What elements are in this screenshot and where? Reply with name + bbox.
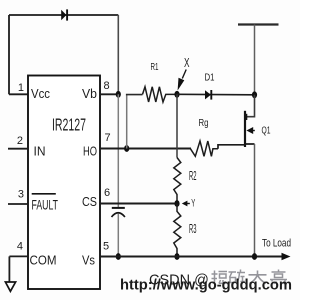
power bus top bar — [238, 23, 279, 25]
capacitor bootstrap curved plate — [112, 213, 125, 217]
wire drain rail upper — [254, 25, 256, 95]
resistor R1 — [143, 87, 178, 102]
svg-text:IR2127: IR2127 — [52, 115, 86, 135]
resistor Rg — [190, 141, 218, 156]
svg-text:Y: Y — [191, 198, 195, 210]
capacitor bootstrap top plate — [112, 207, 125, 209]
wire Vb rail to capacitor — [117, 94, 119, 207]
svg-text:R2: R2 — [189, 168, 197, 183]
node Q1 source junction — [252, 253, 257, 260]
svg-text:Vs: Vs — [82, 253, 95, 268]
wire pin1 stub — [9, 93, 28, 95]
transistor Q1 — [245, 111, 255, 147]
svg-text:5: 5 — [103, 241, 109, 253]
svg-text:HO: HO — [83, 144, 97, 159]
node X arrow — [178, 70, 187, 91]
watermark gray glyph 3 — [249, 271, 267, 284]
svg-text:FAULT: FAULT — [32, 197, 59, 213]
svg-text:1: 1 — [18, 82, 24, 94]
wire pin3 stub — [8, 203, 28, 205]
svg-text:3: 3 — [18, 189, 24, 201]
wire pin2 stub — [8, 148, 28, 150]
svg-text:8: 8 — [104, 80, 110, 92]
wire Vb rail upper — [117, 15, 119, 94]
wire pin4 stub — [9, 255, 28, 257]
svg-text:D1: D1 — [205, 73, 215, 84]
svg-text:7: 7 — [105, 132, 111, 144]
wire COM to ground — [8, 256, 10, 281]
watermark gray glyph 4 — [270, 270, 287, 284]
IC U1 IR2127 gate driver body — [28, 76, 100, 290]
node Vb junction — [116, 91, 121, 98]
resistor R3 — [174, 204, 181, 257]
svg-text:R3: R3 — [189, 221, 197, 236]
node Y arrow — [182, 201, 190, 207]
wire Q1 source to Vs line — [254, 144, 256, 257]
svg-text:X: X — [184, 55, 190, 70]
svg-text:IN: IN — [34, 144, 46, 159]
svg-text:To Load: To Load — [262, 238, 291, 250]
wire top Vcc-to-Vb bootstrap loop horizontal — [9, 14, 118, 16]
wire pin8 Vb stub — [100, 93, 118, 95]
wire pin7 HO to Rg — [100, 148, 191, 150]
wire X riser to R2 — [176, 94, 178, 157]
wire riser corner to R1 — [126, 94, 143, 96]
svg-text:Q1: Q1 — [262, 126, 271, 137]
svg-text:2: 2 — [17, 135, 23, 147]
svg-text:http://www.go-gddq.com: http://www.go-gddq.com — [120, 277, 292, 294]
wire drain rail to Q1 — [246, 95, 255, 117]
wire HO riser to R1 — [126, 95, 128, 149]
node Y — [174, 200, 179, 207]
wire left rail vertical — [8, 15, 10, 94]
svg-text:Rg: Rg — [199, 117, 209, 129]
diode D1 — [205, 90, 211, 100]
watermark gray glyph 1 — [212, 271, 228, 284]
svg-text:CS: CS — [82, 194, 97, 209]
wire capacitor to Vs line — [117, 214, 119, 257]
wire X to D1 to drain rail — [177, 93, 255, 96]
svg-text:COM: COM — [30, 253, 57, 268]
wire pin6 CS to node Y — [100, 203, 177, 205]
node capacitor-Vs junction — [116, 253, 121, 260]
svg-text:Vcc: Vcc — [31, 86, 50, 101]
svg-text:Vb: Vb — [82, 86, 97, 101]
svg-text:R1: R1 — [151, 61, 159, 73]
wire Vs output line — [100, 256, 283, 258]
pin label FAULT overline — [32, 193, 56, 195]
wire gate step — [218, 145, 245, 149]
node R3-Vs junction — [174, 253, 179, 260]
svg-text:4: 4 — [17, 241, 23, 253]
ground — [5, 282, 15, 291]
resistor R2 — [174, 158, 181, 204]
watermark gray glyph 2 — [229, 270, 246, 284]
svg-text:6: 6 — [104, 187, 110, 199]
bootstrap diode on top wire — [61, 9, 67, 20]
node D1-drain junction — [252, 91, 257, 98]
node HO junction — [124, 145, 129, 152]
wire To Load arrowhead — [282, 253, 291, 260]
node X — [174, 91, 179, 98]
